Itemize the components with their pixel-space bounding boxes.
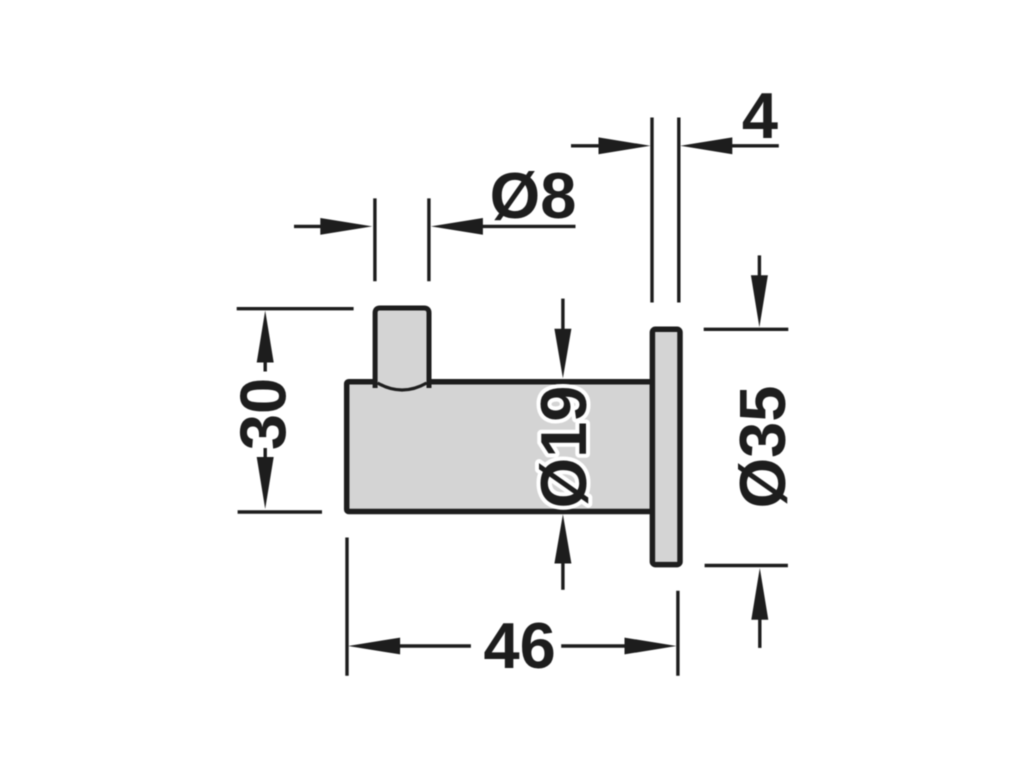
svg-text:30: 30 [227,378,300,450]
dim 46: left arrow (points left) [348,638,400,655]
dim Ø8: right arrow with leader [431,218,483,235]
dim 30: top extension line [237,307,354,310]
peg fill (covers body top line under peg) [375,308,429,391]
dim 46: left extension line [345,538,348,676]
dim 4: right extension line [677,118,680,303]
svg-text:Ø19: Ø19 [527,386,600,509]
dim Ø35: bottom extension line [705,564,788,567]
dim 30: top arrow (up) [257,311,274,363]
dim 46: right arrow (points right) [561,644,627,647]
dim Ø19: top arrow (down onto body) [561,299,564,332]
dim Ø35: bottom arrow (up) [751,568,768,620]
dim 30: bottom extension line [238,510,322,513]
svg-text:4: 4 [742,79,778,152]
dim Ø19: bottom arrow (up onto body) [554,514,571,563]
hook body (side view, 46x19) [347,382,653,512]
peg/body intersection arc [378,383,427,390]
dim Ø8: right extension line [427,198,430,281]
dim 4: right arrow [680,137,732,154]
svg-text:Ø8: Ø8 [490,159,577,232]
dim Ø35: top extension line [704,328,789,331]
dim Ø8: left extension line [373,198,376,281]
svg-text:Ø35: Ø35 [726,386,799,509]
dim 30: bottom arrow (down) [264,448,267,459]
dim 46: right extension line [676,591,679,676]
peg outline (Ø8 pin) [375,308,429,388]
dim Ø8: left arrow [294,225,326,228]
dim 4: left extension line [650,118,653,303]
wall plate (flange, Ø35 x 4) [652,329,680,564]
dim 4: left arrow [571,144,605,147]
dim Ø35: top arrow (down) [758,255,761,278]
svg-text:46: 46 [484,609,556,682]
